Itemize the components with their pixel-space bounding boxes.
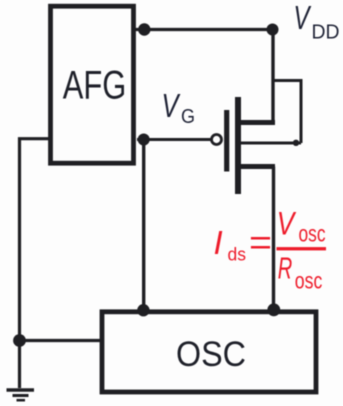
svg-text:V: V	[277, 205, 297, 241]
svg-text:G: G	[181, 106, 195, 128]
svg-text:osc: osc	[295, 268, 323, 294]
svg-text:DD: DD	[312, 22, 340, 44]
svg-text:AFG: AFG	[63, 63, 127, 107]
svg-text:R: R	[278, 250, 293, 285]
svg-text:osc: osc	[299, 221, 326, 247]
svg-text:ds: ds	[228, 244, 247, 264]
svg-text:OSC: OSC	[176, 335, 246, 374]
svg-text:=: =	[249, 224, 272, 263]
svg-text:I: I	[214, 224, 223, 261]
svg-text:V: V	[162, 87, 181, 124]
svg-text:V: V	[294, 0, 312, 36]
